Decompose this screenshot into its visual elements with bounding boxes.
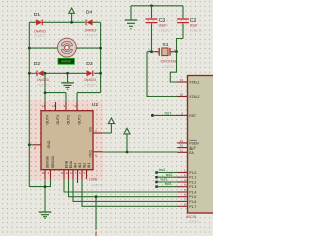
svg-text:P1.0: P1.0 (189, 171, 196, 175)
node: junction C3 top (150, 4, 153, 7)
svg-text:14: 14 (42, 104, 46, 108)
wire: RST net (151, 111, 178, 117)
svg-text:IN2: IN2 (83, 163, 87, 169)
svg-text:IN3: IN3 (78, 163, 82, 169)
net label led2 (155, 173, 178, 179)
svg-text:P1.2: P1.2 (189, 181, 196, 185)
pin IN2 (U2 bottom) (75, 163, 83, 183)
diode D2 (31, 61, 50, 87)
svg-text:P1.3: P1.3 (189, 185, 196, 189)
ground (bridge center) (61, 73, 74, 89)
wire: C2 bottom to crystal right (177, 39, 184, 52)
svg-text:VS: VS (89, 127, 93, 132)
svg-text:EA: EA (189, 151, 194, 155)
svg-text:VCC: VCC (89, 150, 93, 158)
svg-text:15: 15 (42, 171, 46, 175)
pin ALE (177, 144, 196, 151)
node: junction OUT4 link (44, 91, 47, 94)
svg-text:led2: led2 (166, 173, 173, 177)
svg-text:led4: led4 (165, 182, 172, 186)
svg-text:P1.5: P1.5 (189, 195, 196, 199)
wire: motor left lead (29, 47, 57, 49)
wire: OUT4 drop from bottom row (44, 73, 46, 102)
pin SENSB (U2 bottom) (42, 156, 50, 180)
pin OUT1 (U2 top) (75, 102, 82, 125)
pin RST (177, 111, 196, 118)
pin VCC (U2 right) (89, 150, 103, 158)
pin GND (U2 left) (28, 140, 51, 150)
power terminal arrow (top, motor supply) (69, 8, 75, 22)
wire: bridge right vertical (100, 22, 102, 92)
svg-text:X1: X1 (163, 42, 169, 48)
svg-text:GND: GND (47, 140, 51, 148)
chip U1 80C51 (186, 76, 215, 225)
pin EA (177, 148, 194, 155)
chip U2 L298 (41, 102, 103, 188)
svg-text:SENSA: SENSA (51, 156, 55, 169)
wire: OUT1 to bridge right (77, 93, 101, 103)
pin P1.7 (177, 202, 196, 209)
svg-text:<TEXT>: <TEXT> (91, 183, 103, 187)
svg-text:31: 31 (180, 148, 184, 152)
wire: motor right lead (76, 47, 100, 49)
svg-text:11: 11 (61, 171, 64, 175)
svg-text:P1.1: P1.1 (189, 176, 196, 180)
svg-text:OUT3: OUT3 (56, 115, 60, 125)
svg-text:OUT4: OUT4 (46, 115, 50, 125)
svg-text:D3: D3 (86, 61, 93, 67)
node: junction top arrow (70, 21, 73, 24)
svg-text:13: 13 (52, 104, 56, 108)
diode D4 (84, 10, 97, 38)
selection highlight around U2 (29, 101, 103, 181)
node: junction bottom left (28, 72, 31, 75)
svg-text:<TEXT>: <TEXT> (190, 29, 202, 33)
svg-text:OUT2: OUT2 (67, 115, 71, 125)
pin XTAL2 (177, 93, 199, 100)
motor active tag (green) (58, 58, 74, 64)
wire: branch down off-sheet (95, 197, 97, 230)
power arrow (VS supply) (102, 118, 114, 133)
svg-text:RST: RST (165, 111, 173, 115)
wire: ENB to P1.4 (64, 179, 178, 192)
wire: IN4 to P1.6 (73, 179, 178, 201)
wire: SENSA to ground bus (29, 179, 50, 187)
svg-text:80C51: 80C51 (186, 215, 197, 219)
power arrow (VCC/EA supply) (124, 128, 130, 152)
wire: bridge left vertical (ground bus) (28, 22, 30, 186)
svg-text:1N4003: 1N4003 (34, 29, 46, 33)
wire: ENA to P1.5 (69, 179, 178, 197)
pin IN3 (U2 bottom) (70, 163, 78, 179)
svg-text:19: 19 (180, 78, 184, 82)
node: junction crystal right / C2 (175, 50, 178, 53)
svg-text:<TEXT>: <TEXT> (188, 220, 200, 224)
ground (top right, caps) (125, 6, 138, 29)
diode D1 (34, 12, 46, 38)
svg-text:SENSB: SENSB (46, 156, 50, 169)
pin P1.6 (177, 197, 196, 204)
capacitor C2 (177, 6, 202, 39)
pin OUT3 (U2 top) (52, 102, 60, 125)
diode D3 (84, 61, 97, 87)
svg-text:P1.7: P1.7 (189, 205, 196, 209)
wire: SENSB down to ground (44, 179, 46, 211)
svg-text:18: 18 (180, 93, 184, 97)
pin P1.0 (177, 169, 196, 176)
svg-text:29: 29 (180, 139, 184, 143)
pin P1.2 (177, 178, 196, 185)
wire: crystal right to XTAL1 (170, 52, 178, 82)
svg-text:XTAL2: XTAL2 (189, 95, 199, 99)
node: junction crystal left / C3 (150, 50, 153, 53)
svg-text:PSEN: PSEN (189, 141, 199, 145)
node: junction branch (95, 195, 98, 198)
wire: bridge bottom row (29, 72, 100, 74)
svg-text:P1.6: P1.6 (189, 200, 196, 204)
pin P1.5 (177, 193, 196, 200)
svg-text:<TEXT>: <TEXT> (34, 34, 46, 38)
svg-text:L298: L298 (89, 178, 97, 182)
pin P1.4 (177, 188, 196, 195)
svg-text:30: 30 (180, 144, 184, 148)
pin OUT2 (U2 top) (64, 102, 71, 125)
pin IN1b (U2 bottom) (84, 163, 92, 179)
pin IN1 (U2 bottom) (79, 163, 87, 179)
pin P1.1 (177, 173, 196, 180)
svg-text:CRYSTAL: CRYSTAL (161, 60, 177, 64)
crystal X1 (147, 42, 177, 69)
svg-text:1N4003: 1N4003 (37, 78, 49, 82)
svg-text:OUT1: OUT1 (78, 115, 82, 125)
ground (bottom left) (39, 212, 52, 218)
net label led3 (155, 178, 178, 184)
wire: OUT4-OUT2 link (45, 93, 66, 103)
net label led4 (155, 182, 178, 188)
svg-text:30pF: 30pF (190, 24, 198, 28)
svg-text:1N4003: 1N4003 (84, 78, 96, 82)
svg-text:30pF: 30pF (159, 24, 167, 28)
svg-text:XTAL1: XTAL1 (189, 81, 199, 85)
motor (DC motor symbol) (58, 38, 77, 57)
wire: IN2 to P1.7 (82, 179, 178, 206)
svg-text:IN4: IN4 (74, 163, 78, 169)
node: junction VCC arrow (126, 151, 129, 154)
pin IN4 (U2 bottom) (66, 160, 74, 179)
pin PSEN (177, 139, 199, 146)
svg-text:1N4003: 1N4003 (84, 29, 96, 33)
svg-text:<TEXT>: <TEXT> (84, 83, 96, 87)
svg-text:<TEXT>: <TEXT> (163, 65, 175, 69)
wire: crystal left to XTAL2 (147, 52, 178, 97)
pin XTAL1 (177, 78, 199, 85)
pin ENB (U2 bottom) (61, 160, 69, 179)
svg-text:led1: led1 (159, 168, 166, 172)
wire: bridge top row (29, 21, 100, 23)
node: junction bridge ground (66, 72, 69, 75)
svg-text:ENB: ENB (65, 160, 69, 168)
svg-text:ENA: ENA (69, 160, 73, 168)
wire: top right horizontal (caps common) (131, 5, 183, 7)
svg-text:RST: RST (189, 114, 196, 118)
svg-text:D2: D2 (34, 61, 41, 67)
pin SENSA (U2 bottom) (48, 156, 56, 180)
capacitor C3 (146, 6, 172, 52)
net label led1 (155, 168, 178, 174)
svg-text:<TEXT>: <TEXT> (37, 83, 49, 87)
pin P1.3 (177, 183, 196, 190)
wire: VCC to EA long horizontal (102, 151, 178, 153)
svg-text:<TEXT>: <TEXT> (85, 34, 97, 38)
svg-text:P1.4: P1.4 (189, 191, 196, 195)
svg-text:U2: U2 (92, 102, 99, 108)
svg-text:D1: D1 (34, 12, 41, 18)
pin OUT4 (U2 top) (42, 102, 50, 125)
pin VS (U2 right) (89, 127, 103, 133)
svg-text:IN1: IN1 (87, 163, 91, 169)
svg-text:led3: led3 (161, 178, 168, 182)
node: junction sense ground (44, 185, 47, 188)
svg-text:<TEXT>: <TEXT> (159, 29, 171, 33)
node: junction motor left (28, 47, 31, 50)
svg-text:10: 10 (70, 171, 74, 175)
svg-text:D4: D4 (86, 10, 93, 16)
node: junction bottom right (99, 72, 102, 75)
svg-text:12: 12 (66, 171, 70, 175)
node: junction motor right (99, 47, 102, 50)
